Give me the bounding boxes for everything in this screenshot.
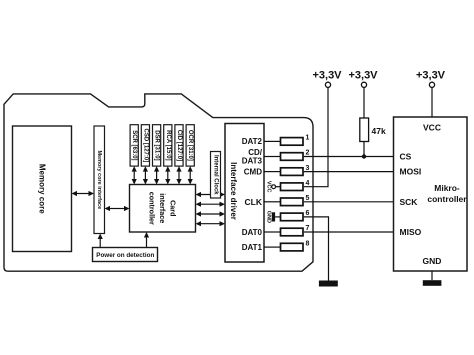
arrow: power on detection to controller xyxy=(144,232,149,248)
pin pad 7 xyxy=(264,225,310,236)
svg-text:GND: GND xyxy=(423,256,442,266)
svg-text:DAT3: DAT3 xyxy=(242,157,263,166)
register SCR [63:0] xyxy=(130,125,138,166)
svg-text:Interface driver: Interface driver xyxy=(229,162,238,220)
wire: pin6 VSS to ground xyxy=(304,217,329,281)
svg-text:CID [127:0]: CID [127:0] xyxy=(176,130,182,161)
svg-text:GND: GND xyxy=(265,211,271,223)
svg-text:DAT0: DAT0 xyxy=(242,228,263,237)
arrow: DSR register to controller xyxy=(154,166,159,184)
svg-text:3: 3 xyxy=(306,165,310,172)
svg-text:CSD [127:0]: CSD [127:0] xyxy=(142,129,148,163)
wire: microcontroller GND stem xyxy=(431,271,433,280)
svg-text:4: 4 xyxy=(306,180,310,187)
svg-text:MISO: MISO xyxy=(400,227,422,237)
register CID [127:0] xyxy=(175,125,183,166)
pin pad 6 with GND terminal xyxy=(265,210,309,223)
svg-text:OCR [31:0]: OCR [31:0] xyxy=(187,130,193,161)
ground symbol (card VSS) xyxy=(319,281,338,287)
arrow: OCR register to controller xyxy=(188,166,193,184)
card interface controller block xyxy=(130,185,196,233)
svg-text:VCC: VCC xyxy=(265,181,271,193)
svg-text:2: 2 xyxy=(306,150,310,157)
svg-text:SCK: SCK xyxy=(400,197,419,207)
arrow: RCA register to controller xyxy=(165,166,170,184)
power on detection block xyxy=(93,248,158,262)
svg-text:Memory core interface: Memory core interface xyxy=(96,150,102,209)
pin pad 8 xyxy=(264,240,310,251)
svg-text:Card: Card xyxy=(169,200,178,216)
svg-text:7: 7 xyxy=(306,225,310,232)
internal clock block xyxy=(211,152,221,199)
arrow: memory core interface to card interface controller xyxy=(105,206,130,211)
wire: pin3 CMD to MOSI xyxy=(304,171,394,173)
svg-text:Power on detection: Power on detection xyxy=(96,252,154,259)
register DSR [31:0] xyxy=(153,125,161,166)
junction dot on CS line xyxy=(362,154,366,158)
wire: pin5 CLK to SCK xyxy=(304,201,394,203)
memory core block xyxy=(13,126,72,252)
SD card body outline xyxy=(4,94,313,271)
arrow: controller to interface driver bus 2 xyxy=(196,202,226,207)
arrow: controller to interface driver bus 1 xyxy=(196,192,226,197)
svg-text:interface: interface xyxy=(158,193,167,223)
svg-text:DSR [31:0]: DSR [31:0] xyxy=(154,130,160,160)
svg-text:RCA [15:0]: RCA [15:0] xyxy=(165,130,171,160)
svg-text:controller: controller xyxy=(148,192,157,225)
arrow: controller to interface driver bus 3 xyxy=(196,211,226,216)
svg-text:8: 8 xyxy=(306,240,310,247)
arrow: CSD register to controller xyxy=(143,166,148,184)
wire: pin7 DAT0 to MISO xyxy=(304,231,394,233)
svg-text:47k: 47k xyxy=(372,126,386,136)
svg-text:1: 1 xyxy=(306,135,310,142)
pin pad 2 xyxy=(264,150,310,161)
svg-text:+3,3V: +3,3V xyxy=(348,70,378,82)
arrow: memory core to memory core interface xyxy=(72,191,95,196)
svg-text:controller: controller xyxy=(427,194,467,204)
arrow: power on detection to memory core interface xyxy=(98,234,103,248)
svg-text:Mikro-: Mikro- xyxy=(434,183,460,193)
svg-text:Internal Clock: Internal Clock xyxy=(213,155,219,195)
register RCA [15:0] xyxy=(164,125,172,166)
wire: +3,3V to microcontroller VCC xyxy=(431,87,433,117)
svg-text:CLK: CLK xyxy=(245,197,263,207)
svg-text:Memory core: Memory core xyxy=(38,164,47,214)
supply terminal +3,3V (pin4 pull) xyxy=(312,70,342,88)
resistor R 47k xyxy=(360,87,386,156)
ground symbol (microcontroller GND) xyxy=(423,280,442,286)
svg-text:+3,3V: +3,3V xyxy=(416,70,446,82)
supply terminal +3,3V (pull-up resistor) xyxy=(348,70,378,88)
svg-text:+3,3V: +3,3V xyxy=(312,70,342,82)
pin pad 3 xyxy=(264,165,310,176)
pin pad 4 with VCC terminal xyxy=(265,180,309,193)
register OCR [31:0] xyxy=(186,125,194,166)
svg-text:CS: CS xyxy=(400,152,412,162)
arrow: SCR register to controller xyxy=(132,166,137,184)
svg-text:6: 6 xyxy=(306,210,310,217)
svg-text:DAT2: DAT2 xyxy=(242,137,263,146)
pin pad 5 xyxy=(264,195,310,206)
supply terminal +3,3V (microcontroller VCC) xyxy=(416,70,446,88)
arrow: controller to interface driver bus 4 xyxy=(196,221,226,226)
svg-text:5: 5 xyxy=(306,195,310,202)
wire: pin4 VCC to +3,3V xyxy=(304,87,328,186)
svg-text:MOSI: MOSI xyxy=(400,167,422,177)
svg-text:SCR [63:0]: SCR [63:0] xyxy=(131,130,137,160)
svg-text:DAT1: DAT1 xyxy=(242,243,263,252)
pin pad 1 xyxy=(264,135,310,146)
svg-text:VCC: VCC xyxy=(423,123,441,133)
interface driver block xyxy=(225,124,264,263)
arrow: CID register to controller xyxy=(176,166,181,184)
svg-text:CMD: CMD xyxy=(244,167,262,176)
memory core interface block xyxy=(94,126,105,234)
microcontroller U1 xyxy=(394,117,468,271)
wire: pin2 CD/DAT3 to CS xyxy=(304,156,394,158)
register CSD [127:0] xyxy=(141,125,149,166)
